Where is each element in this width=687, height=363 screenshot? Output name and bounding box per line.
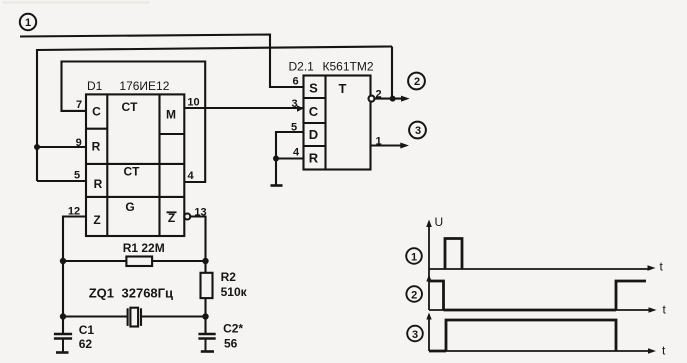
- svg-text:12: 12: [68, 206, 80, 218]
- pin 2 inversion bubble: [369, 96, 375, 102]
- svg-text:R2: R2: [221, 270, 237, 284]
- axis U vertical row 1: [428, 223, 430, 310]
- svg-text:M: M: [166, 108, 176, 122]
- timing diagram: [429, 223, 652, 351]
- resistor R2: [201, 273, 213, 298]
- svg-text:10: 10: [187, 97, 199, 109]
- svg-text:CT: CT: [122, 100, 139, 114]
- scan artifact: faint cut text at top: [2, 1, 150, 4]
- waveform 3 high mid: [446, 320, 616, 351]
- ground C2: [201, 350, 214, 353]
- svg-text:R: R: [309, 151, 319, 166]
- junction dot pin9/net2: [34, 144, 40, 150]
- svg-text:7: 7: [76, 99, 82, 111]
- chip D2.1 pin column divider: [324, 76, 326, 170]
- wire pin5 D of D2.1: [276, 132, 304, 159]
- wire net2 vertical to Q junction: [391, 47, 393, 99]
- svg-text:510к: 510к: [221, 285, 248, 299]
- chip D1 right column divider: [158, 94, 160, 236]
- svg-text:T: T: [339, 81, 347, 96]
- wire pin4 R of D2.1: [276, 159, 304, 186]
- pin 13 inversion bubble: [184, 214, 190, 220]
- arrowhead pin1 output: [400, 143, 409, 149]
- axis t row 3: [429, 350, 652, 352]
- axis t row 2: [429, 309, 652, 311]
- wire C2 to ground: [205, 339, 207, 352]
- svg-text:R1 22М: R1 22М: [123, 241, 165, 255]
- crystal ZQ1 left plate: [127, 308, 129, 326]
- svg-text:1: 1: [411, 251, 417, 263]
- chip D2.1 C/D divider: [304, 122, 326, 124]
- junction dot D/R of D2.1: [273, 156, 279, 162]
- chip D1 M cell bottom: [160, 133, 185, 135]
- svg-text:9: 9: [76, 137, 82, 149]
- resistor R1: [126, 257, 152, 267]
- svg-text:S: S: [309, 81, 318, 96]
- svg-text:3: 3: [291, 98, 297, 110]
- wire pin5 R: [37, 180, 86, 182]
- arrowhead U axis: [426, 220, 432, 228]
- arrowhead t row3: [648, 348, 656, 354]
- chip D1 section divider 2: [86, 196, 184, 198]
- wire net2 feedback from Q output: [37, 47, 392, 182]
- arrowhead axis row3: [426, 313, 431, 320]
- waveform 3 start low: [429, 350, 446, 353]
- wire R1 rail left: [63, 260, 126, 262]
- svg-text:4: 4: [187, 170, 194, 182]
- waveform 2 end high: [616, 281, 646, 310]
- arrowhead t row2: [649, 307, 657, 313]
- svg-text:C1: C1: [79, 323, 95, 337]
- axis vertical row 3: [428, 316, 430, 351]
- axis t row 1: [429, 268, 651, 270]
- junction dot Q output: [390, 96, 396, 102]
- junction dot crystal rail left: [60, 313, 66, 319]
- svg-text:Z: Z: [93, 213, 100, 227]
- svg-text:6: 6: [292, 76, 298, 88]
- crystal ZQ1 right plate: [140, 308, 142, 326]
- capacitor C2 plates: [198, 334, 215, 339]
- circled 2 timing: [406, 286, 422, 302]
- ground C1: [56, 351, 69, 354]
- wire R1 rail right: [152, 260, 205, 262]
- waveform 2 low mid: [444, 309, 617, 312]
- circled 1 timing: [406, 248, 422, 264]
- ground at D2.1 R: [271, 184, 283, 187]
- svg-text:2: 2: [414, 76, 420, 88]
- waveform 2 start high: [429, 281, 444, 310]
- wire net1 from node 1 to S pin: [20, 35, 304, 88]
- chip D2.1 S/C divider: [304, 97, 326, 99]
- svg-text:D2.1: D2.1: [289, 60, 315, 74]
- wire pin2 Q output: [375, 98, 407, 100]
- wire pin12 Z: [63, 217, 86, 262]
- wire crystal rail right: [141, 315, 206, 317]
- dynamic input wedge at pin 3: [297, 105, 304, 111]
- chip D1 left column divider: [106, 94, 108, 236]
- node 2 (circled output label): [408, 73, 425, 90]
- svg-text:R: R: [92, 140, 101, 154]
- svg-text:D1: D1: [87, 79, 103, 93]
- svg-text:1: 1: [25, 17, 31, 29]
- junction dot rail R1 left: [60, 258, 66, 264]
- wire pin7 feedback from pin4: [62, 62, 206, 183]
- chip D1 section divider 1: [86, 163, 184, 165]
- chip D2.1 outline: [304, 76, 371, 170]
- svg-text:К561ТМ2: К561ТМ2: [323, 60, 374, 74]
- svg-text:4: 4: [293, 147, 300, 159]
- arrowhead t row1: [648, 265, 656, 271]
- wire left vertical to C1: [62, 261, 64, 334]
- waveform 1 pulse: [445, 239, 462, 270]
- wire pin10 M to pin3 C: [184, 107, 303, 109]
- svg-text:CT: CT: [124, 165, 141, 179]
- arrowhead axis row2: [426, 275, 431, 282]
- node 3 (circled output label): [409, 122, 426, 139]
- svg-text:ZQ1: ZQ1: [89, 286, 114, 301]
- wire pin1 output: [371, 144, 406, 146]
- svg-text:62: 62: [79, 337, 93, 351]
- svg-text:3: 3: [415, 125, 421, 137]
- svg-text:C: C: [92, 105, 101, 119]
- crystal ZQ1 body: [130, 308, 138, 327]
- wire pin13 Zbar down: [190, 217, 205, 262]
- svg-text:C2*: C2*: [223, 322, 243, 336]
- svg-text:176ИЕ12: 176ИЕ12: [119, 79, 169, 93]
- svg-text:13: 13: [194, 207, 206, 219]
- svg-text:3: 3: [412, 329, 418, 341]
- arrowhead pin2 output: [401, 96, 410, 102]
- junction dot rail R1 right: [202, 258, 208, 264]
- circled 3 timing: [407, 326, 423, 342]
- svg-text:D: D: [309, 127, 318, 142]
- wire crystal rail left: [63, 315, 128, 317]
- capacitor C1 plates: [54, 334, 72, 339]
- svg-text:56: 56: [224, 337, 238, 351]
- svg-text:U: U: [435, 215, 444, 229]
- chip D1 C/R divider: [86, 128, 107, 130]
- svg-text:R: R: [94, 177, 103, 191]
- junction dot crystal rail right: [202, 313, 208, 319]
- svg-text:32768Гц: 32768Гц: [122, 286, 174, 301]
- node 1 (circled output label): [20, 14, 36, 30]
- chip D1 outline: [86, 94, 184, 236]
- svg-text:2: 2: [411, 289, 417, 301]
- svg-text:G: G: [125, 200, 134, 214]
- wire pin9 R: [37, 146, 86, 148]
- wire C1 to ground: [62, 339, 64, 353]
- svg-text:5: 5: [74, 170, 80, 182]
- wire right vertical R2 bottom to C2: [204, 298, 206, 334]
- chip D2.1 D/R divider: [304, 145, 326, 147]
- wire right vertical R2 top: [204, 261, 206, 273]
- overbar of Zbar: [167, 211, 177, 213]
- svg-text:C: C: [309, 104, 319, 119]
